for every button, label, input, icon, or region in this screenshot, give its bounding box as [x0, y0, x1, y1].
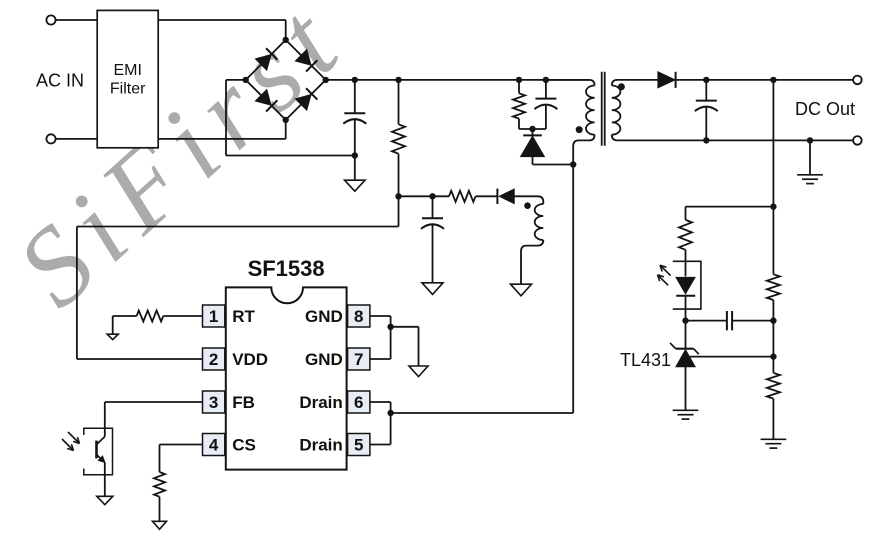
svg-text:1: 1 [209, 307, 218, 326]
svg-text:GND: GND [305, 350, 343, 369]
svg-text:2: 2 [209, 350, 218, 369]
svg-text:Filter: Filter [110, 80, 146, 97]
svg-text:SF1538: SF1538 [248, 256, 325, 281]
svg-text:AC IN: AC IN [36, 71, 84, 91]
svg-text:GND: GND [305, 307, 343, 326]
svg-text:CS: CS [232, 436, 256, 455]
svg-text:VDD: VDD [232, 350, 268, 369]
svg-text:8: 8 [354, 307, 363, 326]
svg-text:DC Out: DC Out [795, 99, 855, 119]
svg-text:EMI: EMI [113, 62, 141, 79]
svg-text:Drain: Drain [299, 436, 342, 455]
svg-text:6: 6 [354, 393, 363, 412]
svg-text:RT: RT [232, 307, 255, 326]
svg-text:3: 3 [209, 393, 218, 412]
svg-text:FB: FB [232, 393, 255, 412]
svg-text:TL431: TL431 [620, 350, 671, 370]
svg-text:4: 4 [209, 436, 219, 455]
svg-text:5: 5 [354, 436, 363, 455]
svg-text:7: 7 [354, 350, 363, 369]
svg-text:Drain: Drain [299, 393, 342, 412]
